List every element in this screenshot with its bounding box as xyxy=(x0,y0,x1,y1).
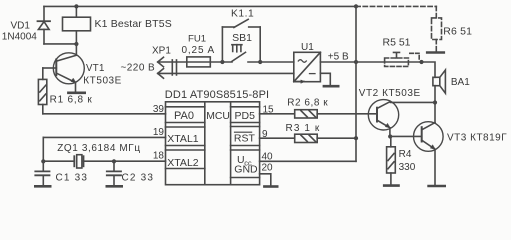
resistor R5 (dashed, optional) xyxy=(385,52,420,66)
svg-text:R3 1 к: R3 1 к xyxy=(286,123,321,134)
svg-text:+5 В: +5 В xyxy=(328,51,349,62)
svg-text:20: 20 xyxy=(262,163,274,174)
capacitor C2 xyxy=(107,161,121,185)
resistor R1 xyxy=(38,68,46,114)
svg-text:R1 6,8 к: R1 6,8 к xyxy=(50,95,93,106)
svg-text:КТ503Е: КТ503Е xyxy=(83,75,122,86)
svg-text:BA1: BA1 xyxy=(451,77,470,88)
crystal ZQ1 xyxy=(43,137,165,168)
svg-text:FU1: FU1 xyxy=(188,33,206,44)
ground U1 xyxy=(324,85,338,88)
svg-text:9: 9 xyxy=(262,129,268,140)
IC DD1 box xyxy=(166,102,260,185)
wire U1 minus output to ground xyxy=(320,73,330,84)
capacitor C1 xyxy=(35,161,49,185)
node junction relay bottom / VD1 xyxy=(74,42,78,46)
ground C1 xyxy=(35,185,50,188)
node C1 xyxy=(41,159,45,163)
svg-text:K1 Bestar BT5S: K1 Bestar BT5S xyxy=(95,18,172,30)
transistor VT2 xyxy=(368,100,435,137)
svg-text:ZQ1 3,6184 МГц: ZQ1 3,6184 МГц xyxy=(57,143,140,154)
svg-text:XP1: XP1 xyxy=(152,46,171,57)
node A fuse/K1.1 xyxy=(220,60,224,64)
ground DD1 GND xyxy=(264,185,277,188)
svg-text:GND: GND xyxy=(234,164,258,176)
svg-text:~220 В: ~220 В xyxy=(121,62,156,73)
relay K1 coil xyxy=(63,6,91,44)
RST overline xyxy=(234,131,252,133)
svg-text:18: 18 xyxy=(153,151,165,162)
ground VT1 emitter xyxy=(68,92,84,95)
connector XP1 plug xyxy=(158,57,177,78)
svg-text:R2 6,8 к: R2 6,8 к xyxy=(287,97,328,108)
svg-text:XTAL1: XTAL1 xyxy=(167,133,198,145)
wire mains upper xyxy=(158,61,232,63)
wire VD1 anode to relay bottom xyxy=(44,43,76,45)
svg-text:VD1: VD1 xyxy=(11,21,31,32)
svg-text:MCU: MCU xyxy=(206,111,230,122)
svg-text:330: 330 xyxy=(399,162,416,173)
svg-text:VT1: VT1 xyxy=(86,63,105,74)
svg-text:1N4004: 1N4004 xyxy=(2,32,37,43)
wire GND pin 20 xyxy=(260,174,271,185)
svg-text:R4: R4 xyxy=(399,149,412,160)
wire mains lower to U1 xyxy=(158,72,294,74)
svg-text:VT2 КТ503Е: VT2 КТ503Е xyxy=(359,88,421,99)
resistor R4 xyxy=(387,137,396,185)
resistor R3 xyxy=(260,134,356,142)
wire node B to U1 xyxy=(248,61,294,63)
diode VD1 xyxy=(38,6,51,44)
relay contact K1.1 xyxy=(222,19,260,62)
ground R6 xyxy=(427,51,444,54)
svg-text:39: 39 xyxy=(153,104,165,115)
wire speaker to collectors node xyxy=(434,86,436,123)
svg-text:40: 40 xyxy=(262,152,274,163)
svg-text:PD5: PD5 xyxy=(235,110,256,122)
wire R1 to pin 39 PA0 xyxy=(43,113,166,115)
node R3 / +5 vertical xyxy=(354,136,358,140)
svg-text:DD1 AT90S8515-8PI: DD1 AT90S8515-8PI xyxy=(165,89,269,101)
node C2 xyxy=(112,159,116,163)
wire U1 +5V output xyxy=(320,61,421,63)
svg-text:SB1: SB1 xyxy=(232,32,252,44)
transistor VT1 xyxy=(53,44,84,93)
power supply U1 xyxy=(294,52,321,83)
svg-text:R5 51: R5 51 xyxy=(383,36,411,48)
node R5 right / speaker branch xyxy=(419,60,423,64)
node collectors VT2/VT3 xyxy=(433,100,437,104)
svg-text:XTAL2: XTAL2 xyxy=(167,157,198,169)
svg-text:15: 15 xyxy=(263,104,275,115)
fuse FU1 xyxy=(187,57,211,67)
svg-text:U1: U1 xyxy=(301,42,314,53)
ground VT3 emitter xyxy=(429,185,445,188)
svg-text:0,25 A: 0,25 A xyxy=(182,45,215,56)
node +5V / vertical feed xyxy=(354,60,358,64)
node junction top rail / relay xyxy=(74,4,78,8)
svg-text:RST: RST xyxy=(234,132,256,144)
pushbutton SB1 xyxy=(232,45,246,62)
resistor R2 xyxy=(260,110,377,118)
wire vertical +5V to Ucc xyxy=(355,6,357,161)
wire top +5V rail xyxy=(44,5,356,7)
svg-text:K1.1: K1.1 xyxy=(231,8,254,19)
wire VT1 base lead xyxy=(43,67,57,69)
wire to speaker xyxy=(422,62,436,77)
speaker BA1 xyxy=(433,70,446,93)
svg-text:R6 51: R6 51 xyxy=(443,26,472,38)
ground R4 xyxy=(384,184,398,187)
transistor VT3 xyxy=(414,122,444,185)
node top rail to dashed R6 xyxy=(354,4,358,8)
svg-text:C2 33: C2 33 xyxy=(122,172,155,183)
svg-text:PA0: PA0 xyxy=(174,110,194,122)
node B SB1 right xyxy=(258,60,262,64)
ground C2 xyxy=(107,185,122,188)
wire Ucc pin 40 xyxy=(260,160,356,162)
svg-text:19: 19 xyxy=(153,127,165,138)
resistor R6 (dashed, optional) xyxy=(356,6,442,51)
svg-text:VT3 КТ819Г: VT3 КТ819Г xyxy=(447,133,507,144)
svg-text:C1 33: C1 33 xyxy=(56,172,89,183)
node VT2 emitter / R4 / VT3 base xyxy=(388,134,392,138)
wire emitter node to VT3 base xyxy=(390,135,422,137)
